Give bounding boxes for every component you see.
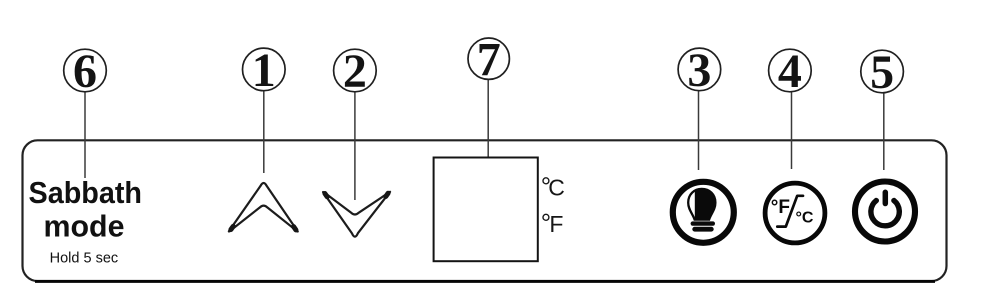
callout 4 (769, 45, 812, 98)
svg-text:3: 3 (687, 44, 711, 97)
callout 1 (242, 44, 285, 97)
svg-text:5: 5 (870, 46, 894, 99)
wire leader 3 (698, 91, 700, 170)
wire leader 6 (84, 92, 86, 178)
°F/°C icon (771, 196, 814, 227)
callout 2 (334, 45, 377, 98)
callout 3 (678, 44, 721, 97)
temperature unit button ring (765, 183, 825, 243)
svg-text:mode: mode (44, 209, 125, 244)
svg-text:6: 6 (73, 45, 97, 98)
control panel outline (23, 140, 947, 281)
svg-text:°F: °F (771, 197, 790, 218)
svg-text:7: 7 (477, 33, 501, 86)
svg-text:Sabbath: Sabbath (29, 175, 143, 210)
up chevron tip knobs (231, 226, 296, 230)
panel bottom edge emphasis (35, 280, 935, 283)
wire leader 7 (487, 80, 489, 158)
up button (chevron) (229, 183, 298, 232)
display window (434, 158, 538, 262)
light button ring (673, 182, 734, 243)
wire leader 1 (263, 91, 265, 173)
svg-text:2: 2 (343, 45, 367, 98)
callout 6 (64, 45, 107, 98)
svg-text:F: F (549, 211, 563, 237)
wire leader 4 (791, 92, 793, 169)
svg-text:C: C (548, 175, 565, 201)
wire leader 5 (883, 93, 885, 170)
svg-text:4: 4 (778, 45, 802, 98)
wire leader 2 (354, 92, 356, 200)
down button (chevron) (323, 192, 390, 237)
svg-text:1: 1 (252, 44, 276, 97)
callout 7 (468, 33, 509, 86)
power icon (871, 192, 899, 226)
svg-text:°C: °C (796, 210, 814, 227)
power button ring (855, 182, 915, 242)
svg-text:Hold 5 sec: Hold 5 sec (50, 251, 119, 267)
callout 5 (861, 46, 904, 99)
label Sabbath mode (29, 175, 143, 267)
down chevron tip knobs (325, 193, 388, 197)
